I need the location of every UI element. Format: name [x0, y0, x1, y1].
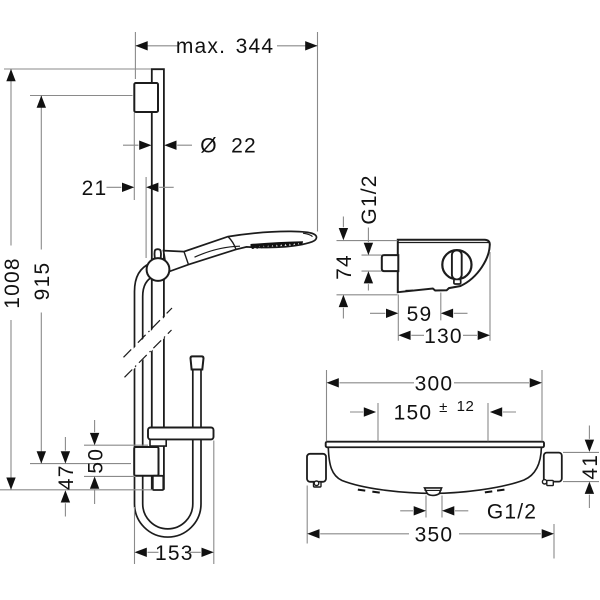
svg-text:344: 344 — [236, 35, 275, 58]
side body top slab line — [398, 242, 489, 244]
face tick b — [372, 491, 380, 494]
dim 150 +-12 front — [350, 403, 516, 441]
dim 59 side — [370, 312, 468, 314]
side body — [398, 240, 490, 293]
dim max. 344 top — [135, 32, 317, 232]
svg-text:41: 41 — [579, 454, 600, 480]
front view thermostat — [307, 442, 562, 496]
soap dish clamp lip — [150, 439, 166, 446]
side body bottom tick — [406, 289, 414, 291]
side view thermostat — [382, 240, 490, 293]
right connector tab — [547, 480, 554, 485]
svg-text:22: 22 — [231, 135, 257, 158]
rail end piece — [153, 476, 164, 490]
break line lower — [125, 330, 172, 377]
head cap seam — [303, 233, 313, 236]
hose — [135, 263, 202, 537]
svg-text:350: 350 — [415, 523, 454, 546]
dim 74 side — [342, 217, 344, 319]
dim 1008 left — [0, 69, 153, 490]
svg-text:74: 74 — [333, 254, 356, 280]
svg-text:12: 12 — [457, 398, 475, 415]
svg-text:G1/2: G1/2 — [487, 500, 537, 523]
svg-text:130: 130 — [424, 325, 463, 348]
svg-text:Ø: Ø — [200, 135, 218, 158]
svg-text:max.: max. — [176, 35, 226, 58]
slider pin — [155, 249, 162, 262]
svg-text:300: 300 — [415, 372, 454, 395]
knob grip bar — [452, 250, 462, 279]
front body — [328, 447, 541, 493]
svg-text:59: 59 — [407, 303, 433, 326]
soap dish bar — [148, 428, 214, 440]
bottom wall bracket — [134, 447, 158, 476]
side view ext lines — [337, 241, 491, 341]
dim G1/2 front — [400, 496, 468, 518]
handle seam 1 — [184, 252, 189, 265]
svg-text:±: ± — [439, 399, 448, 416]
brackets — [134, 83, 213, 490]
svg-text:915: 915 — [31, 262, 54, 301]
svg-text:G1/2: G1/2 — [358, 174, 381, 224]
handle and spray head body — [164, 231, 317, 272]
svg-text:21: 21 — [82, 177, 108, 200]
break line upper — [124, 308, 173, 357]
hose connector cone — [191, 356, 204, 369]
wall stub G1/2 — [382, 255, 399, 271]
hand shower — [147, 231, 317, 281]
dim 130 side — [411, 334, 477, 336]
face tick d — [497, 489, 505, 492]
svg-text:47: 47 — [55, 464, 78, 490]
spray nozzles — [251, 241, 304, 249]
dim 300 front — [327, 370, 543, 441]
svg-text:1008: 1008 — [1, 257, 24, 309]
svg-text:50: 50 — [84, 448, 107, 474]
right supply connector — [544, 453, 562, 482]
face plate seam — [195, 246, 241, 257]
face tick c — [485, 490, 493, 493]
dim diameter 22 — [123, 144, 192, 146]
left connector tab — [314, 482, 322, 487]
wall bar rail — [152, 69, 164, 490]
dim G1/2 side — [367, 228, 369, 291]
dim 153 — [135, 441, 214, 565]
outlet spout — [425, 488, 442, 496]
shelf slab — [326, 442, 544, 448]
handle seam 2 — [228, 237, 236, 250]
left supply connector — [307, 454, 326, 482]
break marks — [124, 308, 173, 377]
dim 50 — [84, 420, 148, 504]
svg-text:150: 150 — [394, 402, 433, 425]
dim 915 left — [30, 96, 133, 464]
dim 41 front — [563, 426, 599, 509]
knob grip tab — [454, 279, 461, 284]
left connector screw — [314, 481, 319, 486]
top wall bracket — [134, 83, 158, 112]
right connector screw — [542, 480, 546, 484]
thermostat knob circle — [442, 250, 471, 279]
dim 21 — [107, 113, 174, 259]
dim 47 — [64, 437, 66, 517]
dim 350 front — [307, 486, 554, 559]
slider roller — [147, 258, 170, 281]
svg-text:153: 153 — [155, 542, 194, 565]
face tick a — [358, 489, 366, 492]
